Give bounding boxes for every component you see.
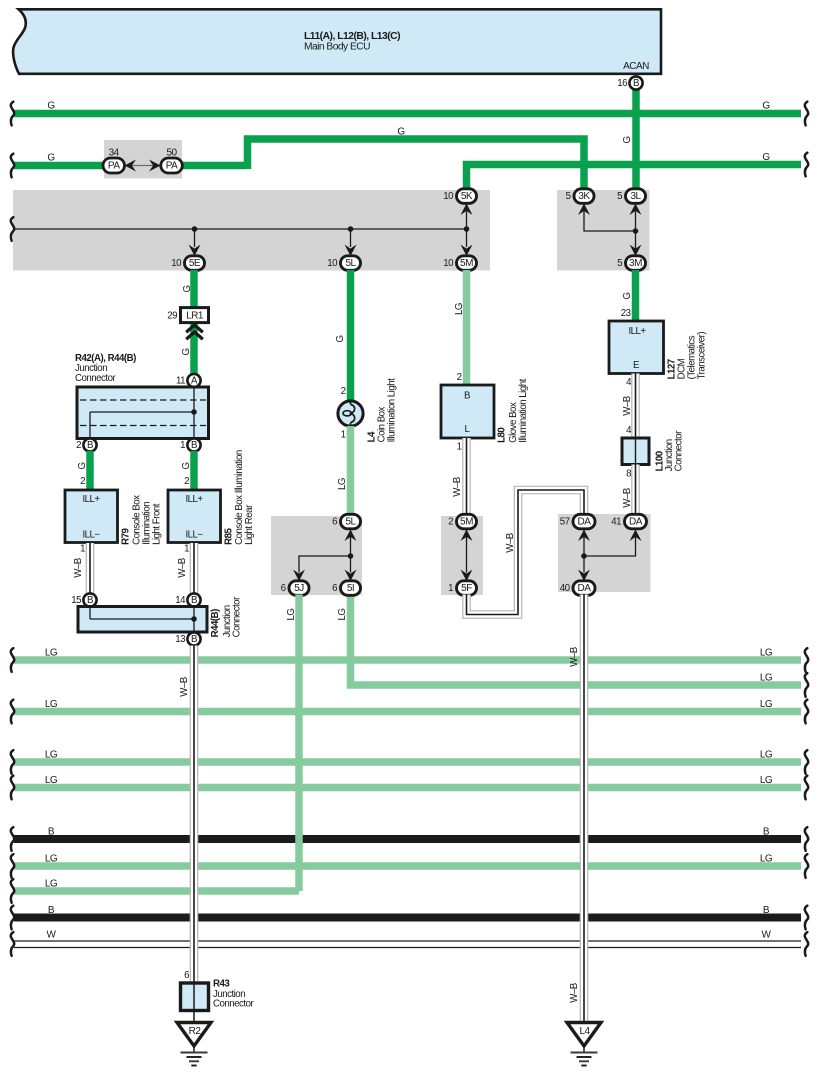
svg-text:5J: 5J bbox=[294, 583, 304, 594]
svg-text:LG: LG bbox=[337, 478, 348, 490]
svg-text:ILL+: ILL+ bbox=[185, 494, 203, 505]
svg-text:LG: LG bbox=[45, 879, 58, 890]
svg-text:LG: LG bbox=[45, 699, 58, 710]
svg-text:14: 14 bbox=[175, 595, 186, 606]
svg-text:W–B: W–B bbox=[569, 647, 580, 667]
pin 13 B of R44 bbox=[175, 632, 200, 645]
svg-text:LG: LG bbox=[760, 750, 773, 761]
svg-text:ILL−: ILL− bbox=[82, 530, 100, 541]
connector 5L lower bbox=[332, 514, 360, 529]
svg-text:LG: LG bbox=[337, 609, 348, 621]
svg-text:ILL−: ILL− bbox=[185, 530, 203, 541]
svg-text:G: G bbox=[762, 101, 770, 112]
wire W-B L80 down to 5M bbox=[452, 438, 467, 515]
svg-text:Connector: Connector bbox=[232, 596, 243, 637]
svg-text:DA: DA bbox=[578, 583, 592, 594]
link 57DA 41DA 40DA with arrows bbox=[578, 530, 642, 582]
svg-text:A: A bbox=[191, 376, 198, 387]
svg-text:ACAN: ACAN bbox=[623, 61, 649, 72]
svg-text:Main Body ECU: Main Body ECU bbox=[304, 42, 370, 53]
pin 14 B of R44 bbox=[175, 593, 200, 606]
svg-text:W–B: W–B bbox=[179, 677, 190, 697]
svg-text:2: 2 bbox=[80, 476, 85, 487]
svg-text:34: 34 bbox=[109, 148, 120, 159]
wire W-B L100 to 41DA bbox=[622, 465, 636, 515]
wire bus LG D bbox=[14, 750, 801, 763]
shield box with connectors 5M 5F bbox=[441, 516, 483, 595]
svg-text:5F: 5F bbox=[461, 583, 472, 594]
svg-text:B: B bbox=[48, 905, 55, 916]
connector 40 DA bbox=[560, 581, 595, 596]
svg-text:G: G bbox=[762, 152, 770, 163]
pin 1 B of junction connector bbox=[180, 438, 200, 451]
svg-text:23: 23 bbox=[621, 308, 631, 319]
wire bus LG G bbox=[14, 854, 801, 867]
svg-text:W–B: W–B bbox=[73, 558, 84, 578]
svg-text:Connector: Connector bbox=[213, 999, 254, 1010]
link 3K 3L 3M with arrows bbox=[578, 204, 642, 257]
svg-text:G: G bbox=[47, 153, 55, 164]
svg-text:LG: LG bbox=[45, 854, 58, 865]
svg-text:B: B bbox=[464, 391, 470, 402]
svg-text:G: G bbox=[622, 136, 633, 143]
svg-text:LG: LG bbox=[286, 609, 297, 621]
svg-text:6: 6 bbox=[281, 583, 286, 594]
wire bus LG A bbox=[14, 648, 801, 661]
svg-text:B: B bbox=[87, 595, 93, 606]
wire W-B 40DA down to ground L4 bbox=[569, 595, 584, 1023]
svg-text:E: E bbox=[633, 360, 640, 371]
svg-text:5: 5 bbox=[566, 191, 571, 202]
shield box with connectors 5L 5J 5I bbox=[271, 516, 362, 595]
svg-text:G: G bbox=[77, 462, 88, 469]
svg-text:2: 2 bbox=[76, 440, 81, 451]
svg-text:6: 6 bbox=[184, 970, 189, 981]
wire LG coin box lamp down to 5L bbox=[337, 426, 351, 515]
junction connector R43 box bbox=[181, 979, 255, 1023]
svg-text:B: B bbox=[191, 440, 197, 451]
svg-text:B: B bbox=[633, 78, 639, 89]
svg-text:W: W bbox=[762, 930, 772, 941]
lamp R79 Console Box Illumination Light Front bbox=[65, 490, 163, 545]
shield box with connectors 57DA 41DA 40DA bbox=[558, 514, 651, 592]
svg-text:LG: LG bbox=[760, 775, 773, 786]
svg-text:L4: L4 bbox=[579, 1026, 590, 1037]
shield ground-plane box around PA joint bbox=[104, 140, 182, 179]
svg-text:10: 10 bbox=[443, 258, 454, 269]
connector 5I bbox=[332, 581, 360, 596]
wire W-B R79 to 15B bbox=[73, 543, 90, 594]
connector PA pin 34 bbox=[103, 148, 125, 174]
svg-text:2: 2 bbox=[448, 517, 453, 528]
ground L4 bbox=[567, 1023, 601, 1066]
wire LG 5J down to bus H bbox=[286, 595, 299, 892]
junction connector R44(B) box bbox=[78, 596, 243, 637]
svg-text:5I: 5I bbox=[347, 583, 354, 594]
svg-text:G: G bbox=[181, 348, 192, 355]
joint connector PA 34-50 double arrow bbox=[124, 160, 161, 172]
svg-text:R43: R43 bbox=[213, 979, 230, 990]
shield band internal wire with junctions bbox=[14, 226, 469, 232]
svg-text:LG: LG bbox=[760, 699, 773, 710]
svg-text:L80: L80 bbox=[497, 428, 508, 443]
svg-text:5M: 5M bbox=[460, 517, 473, 528]
wire W-B R85 to 14B bbox=[177, 543, 194, 594]
svg-text:R85: R85 bbox=[224, 528, 235, 545]
svg-text:2: 2 bbox=[184, 476, 189, 487]
junction connector R42/R44 box bbox=[77, 387, 209, 439]
svg-text:6: 6 bbox=[332, 583, 337, 594]
bus break symbols right edge bbox=[805, 102, 808, 956]
wire G pin B to R79 bbox=[77, 451, 90, 490]
svg-text:11: 11 bbox=[176, 376, 185, 387]
connector 57 DA bbox=[560, 514, 595, 529]
svg-text:R2: R2 bbox=[189, 1026, 202, 1037]
svg-text:LG: LG bbox=[760, 854, 773, 865]
connector 5M lower bbox=[448, 514, 476, 529]
shield box with connectors 3K 3L 3M bbox=[557, 190, 650, 271]
connector 41 DA bbox=[611, 514, 646, 529]
svg-text:L11(A), L12(B), L13(C): L11(A), L12(B), L13(C) bbox=[304, 31, 400, 42]
svg-text:G: G bbox=[335, 335, 346, 342]
svg-text:R44(B): R44(B) bbox=[210, 609, 221, 637]
wire G 5L down to coin box lamp bbox=[335, 270, 351, 401]
svg-text:1: 1 bbox=[180, 440, 185, 451]
svg-text:10: 10 bbox=[327, 258, 338, 269]
svg-text:LG: LG bbox=[454, 303, 465, 315]
svg-text:B: B bbox=[48, 827, 55, 838]
svg-text:50: 50 bbox=[166, 148, 177, 159]
pin 16 B of Main Body ECU bbox=[617, 76, 642, 89]
connector PA pin 50 bbox=[161, 148, 183, 174]
branch arrow down to 5E bbox=[189, 229, 201, 256]
link 5L to 5J and 5I with arrows bbox=[293, 530, 357, 582]
svg-text:B: B bbox=[763, 827, 770, 838]
junction connector R42(A) R44(B) label bbox=[75, 353, 136, 384]
svg-text:5M: 5M bbox=[460, 258, 473, 269]
splice LR1 pin 29 bbox=[167, 308, 208, 323]
wire bus G top (row 1) bbox=[14, 101, 801, 114]
wire G 3M down to DCM bbox=[621, 270, 636, 321]
svg-text:1: 1 bbox=[448, 583, 453, 594]
connector 3K bbox=[566, 189, 594, 204]
svg-text:16: 16 bbox=[617, 78, 627, 89]
svg-text:Light Front: Light Front bbox=[152, 503, 163, 545]
wire G pin B to R85 bbox=[181, 451, 194, 490]
svg-text:Connector: Connector bbox=[75, 373, 116, 384]
ECU L127 DCM Telematics Transceiver box bbox=[609, 321, 708, 379]
link 5K to 5M with arrows bbox=[461, 204, 473, 257]
connector 5M bbox=[443, 256, 476, 270]
svg-text:W–B: W–B bbox=[569, 983, 580, 1003]
wire bus B black F bbox=[14, 827, 801, 840]
svg-text:Transceiver): Transceiver) bbox=[697, 332, 708, 380]
lamp L4 Coin Box Illumination Light bbox=[338, 378, 398, 443]
no-connector chevrons below LR1 bbox=[186, 325, 203, 339]
connector 5F bbox=[448, 581, 476, 596]
svg-text:DA: DA bbox=[578, 517, 592, 528]
wire bus LG H ends at 5J column bbox=[14, 879, 299, 892]
wire bus G row 2 right segment to 5K bbox=[467, 152, 802, 189]
svg-text:DA: DA bbox=[629, 517, 643, 528]
svg-text:G: G bbox=[47, 101, 55, 112]
svg-text:10: 10 bbox=[443, 191, 454, 202]
svg-text:10: 10 bbox=[171, 258, 182, 269]
wire LG 5I down to bus B label bbox=[337, 609, 348, 621]
svg-text:15: 15 bbox=[71, 595, 81, 606]
svg-text:Illumination Light: Illumination Light bbox=[387, 378, 398, 443]
svg-text:G: G bbox=[622, 292, 633, 299]
svg-text:W–B: W–B bbox=[622, 396, 633, 416]
wire G 5E down to LR1 bbox=[182, 270, 194, 308]
wire bus LG E bbox=[14, 775, 801, 788]
svg-text:W–B: W–B bbox=[452, 477, 463, 497]
svg-text:2: 2 bbox=[457, 372, 462, 383]
svg-text:5: 5 bbox=[617, 191, 622, 202]
svg-text:W–B: W–B bbox=[505, 533, 516, 553]
pin 11 A of junction connector bbox=[176, 374, 201, 387]
svg-text:PA: PA bbox=[166, 161, 178, 172]
svg-text:B: B bbox=[87, 440, 93, 451]
wire bus W white J bbox=[14, 930, 801, 948]
svg-text:LG: LG bbox=[45, 750, 58, 761]
svg-text:W: W bbox=[47, 930, 57, 941]
connector 3M bbox=[617, 256, 645, 270]
svg-text:R79: R79 bbox=[121, 528, 132, 545]
wire bus G row 2 left segment through PA bbox=[14, 153, 246, 166]
bus break symbols left edge bbox=[11, 102, 14, 956]
svg-text:3K: 3K bbox=[578, 191, 590, 202]
svg-text:B: B bbox=[763, 905, 770, 916]
shield ground-plane band with connectors 5E 5L 5M 5K bbox=[13, 190, 490, 271]
svg-text:57: 57 bbox=[560, 517, 570, 528]
wire G from ACAN down to 3L bbox=[622, 88, 636, 189]
svg-text:G: G bbox=[397, 127, 405, 138]
svg-text:G: G bbox=[181, 462, 192, 469]
svg-text:B: B bbox=[191, 634, 197, 645]
svg-text:W–B: W–B bbox=[177, 558, 188, 578]
wire G jog from row2 up and right to 3K bbox=[248, 127, 585, 190]
wire W-B loop 5F to 57DA bbox=[467, 490, 585, 615]
svg-text:LG: LG bbox=[45, 775, 58, 786]
connector 5E bbox=[171, 256, 204, 270]
svg-text:5: 5 bbox=[617, 258, 622, 269]
svg-text:W–B: W–B bbox=[622, 488, 633, 508]
svg-text:13: 13 bbox=[175, 634, 185, 645]
connector 5K bbox=[443, 189, 476, 204]
svg-text:6: 6 bbox=[332, 517, 337, 528]
svg-text:1: 1 bbox=[80, 544, 85, 555]
svg-text:29: 29 bbox=[167, 311, 177, 322]
svg-text:LG: LG bbox=[45, 648, 58, 659]
svg-text:3L: 3L bbox=[630, 191, 641, 202]
junction connector L100 box bbox=[622, 430, 685, 471]
svg-text:PA: PA bbox=[108, 161, 120, 172]
svg-text:40: 40 bbox=[560, 583, 571, 594]
svg-text:5L: 5L bbox=[345, 258, 356, 269]
svg-text:1: 1 bbox=[184, 544, 189, 555]
lamp L80 Glove Box Illumination Light bbox=[441, 378, 529, 443]
connector 5J bbox=[281, 581, 309, 596]
wire bus LG C bbox=[14, 699, 801, 712]
wire bus B black I bbox=[14, 905, 801, 918]
svg-text:Connector: Connector bbox=[674, 430, 685, 471]
svg-text:LR1: LR1 bbox=[186, 311, 204, 322]
link 5M to 5F with arrows bbox=[461, 530, 473, 582]
wire W-B DCM E to L100 bbox=[622, 374, 636, 439]
wire W-B 13B down to R43 bbox=[179, 646, 194, 984]
ECU L11/L12/L13 Main Body ECU box bbox=[13, 9, 661, 74]
svg-text:5E: 5E bbox=[189, 258, 201, 269]
ground R2 bbox=[177, 1023, 211, 1066]
svg-text:ILL+: ILL+ bbox=[82, 494, 100, 505]
connector 3L bbox=[617, 189, 645, 204]
svg-text:8: 8 bbox=[626, 469, 631, 480]
lamp R85 Console Box Illumination Light Rear bbox=[168, 450, 255, 545]
svg-text:1: 1 bbox=[341, 430, 346, 441]
svg-text:LG: LG bbox=[760, 673, 773, 684]
svg-text:ILL+: ILL+ bbox=[628, 326, 646, 337]
svg-text:Light Rear: Light Rear bbox=[244, 504, 255, 545]
svg-text:3M: 3M bbox=[629, 258, 642, 269]
svg-text:G: G bbox=[182, 285, 193, 292]
pin 2 B of junction connector bbox=[76, 438, 96, 451]
connector 5L bbox=[327, 256, 360, 270]
wire G LR1 down to pin A bbox=[181, 322, 194, 375]
svg-text:Illumination Light: Illumination Light bbox=[518, 378, 529, 443]
wire LG 5M down to L80 bbox=[454, 270, 467, 385]
svg-text:B: B bbox=[191, 595, 197, 606]
wire bus LG B from coin-box column bbox=[351, 595, 802, 686]
svg-text:2: 2 bbox=[341, 386, 346, 397]
branch arrow down to 5L bbox=[345, 229, 357, 256]
svg-text:1: 1 bbox=[457, 442, 462, 453]
pin 15 B of R44 bbox=[71, 593, 96, 606]
svg-text:5K: 5K bbox=[461, 191, 473, 202]
svg-text:5L: 5L bbox=[345, 517, 356, 528]
svg-text:LG: LG bbox=[760, 648, 773, 659]
svg-text:41: 41 bbox=[611, 517, 621, 528]
